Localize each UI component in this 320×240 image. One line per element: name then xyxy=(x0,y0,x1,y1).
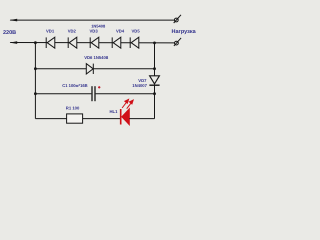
svg-text:R1 100: R1 100 xyxy=(66,106,80,111)
wire top line to load xyxy=(10,19,174,21)
svg-text:VD6 1N5408: VD6 1N5408 xyxy=(84,55,109,60)
LED HL1 xyxy=(121,109,130,125)
diode VD7 xyxy=(149,76,159,85)
node left-main junction xyxy=(34,41,37,44)
arrowhead 220V top xyxy=(10,19,18,22)
wire VD6 row xyxy=(35,68,154,70)
wire LED to right bus xyxy=(129,118,154,120)
label Load xyxy=(172,29,197,35)
diode VD1 xyxy=(46,37,55,48)
node left-C1 junction xyxy=(34,92,37,95)
label 1N4007 xyxy=(132,83,147,88)
wire main line (diode chain) xyxy=(10,42,174,44)
diode VD3 xyxy=(90,37,99,48)
node right-VD6 junction xyxy=(153,67,156,70)
resistor R1 xyxy=(67,114,83,123)
LED arrows xyxy=(122,98,134,108)
node right-C1 junction xyxy=(153,92,156,95)
capacitor C1 xyxy=(92,86,95,101)
arrowhead 220V bottom xyxy=(10,41,18,44)
svg-text:Нагрузка: Нагрузка xyxy=(172,29,197,35)
label VD1 xyxy=(46,29,55,34)
label HL1 xyxy=(110,109,119,114)
polarity plus of C1 xyxy=(98,86,100,88)
label 1N5408 xyxy=(91,23,106,28)
svg-text:1N4007: 1N4007 xyxy=(132,83,147,88)
svg-text:VD3: VD3 xyxy=(90,29,99,34)
svg-text:VD1: VD1 xyxy=(46,29,55,34)
label VD7 xyxy=(138,78,147,83)
wire right bus vertical upper xyxy=(154,43,156,76)
terminal top (connector) xyxy=(174,15,181,23)
svg-text:C1 100м*16В: C1 100м*16В xyxy=(62,83,87,88)
label 220V xyxy=(3,30,16,36)
diode VD5 xyxy=(130,37,139,48)
label R1 value xyxy=(66,106,80,111)
node left-VD6 junction xyxy=(34,67,37,70)
svg-text:VD2: VD2 xyxy=(68,29,77,34)
diode VD4 xyxy=(112,37,121,48)
terminal bottom (connector) xyxy=(174,38,181,46)
label VD2 xyxy=(68,29,77,34)
label VD3 xyxy=(90,29,99,34)
diode VD2 xyxy=(68,37,77,48)
diode VD6 xyxy=(86,64,93,74)
wire bottom row left xyxy=(35,118,66,120)
label C1 value xyxy=(62,83,87,88)
svg-text:1N5408: 1N5408 xyxy=(91,23,106,28)
svg-text:HL1: HL1 xyxy=(110,109,119,114)
svg-text:220В: 220В xyxy=(3,30,16,36)
wire left bus vertical xyxy=(34,43,36,119)
wire right bus vertical lower xyxy=(154,85,156,118)
label VD5 xyxy=(132,29,141,34)
node right-main junction xyxy=(153,42,156,45)
label VD6 1N5408 xyxy=(84,55,109,60)
wire capacitor row left xyxy=(35,93,91,95)
wire capacitor row right xyxy=(96,93,155,95)
wire resistor to LED xyxy=(83,118,121,120)
label VD4 xyxy=(116,29,125,34)
svg-text:VD4: VD4 xyxy=(116,29,125,34)
svg-text:VD5: VD5 xyxy=(132,29,141,34)
